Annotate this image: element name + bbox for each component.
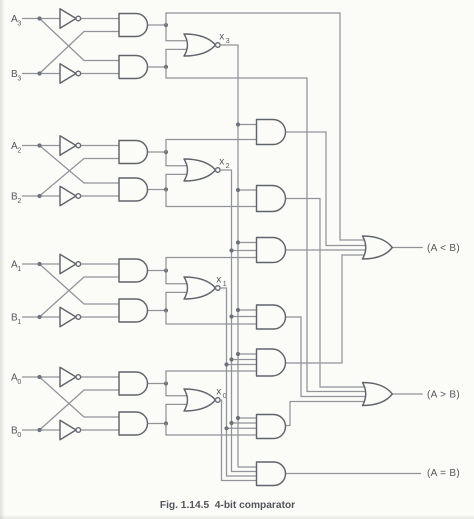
wire (A>B) OR output xyxy=(392,393,423,395)
wire junction to NOR top input (bit 3) xyxy=(166,25,190,41)
inverter B0 (NOT gate) xyxy=(60,420,76,439)
OR gate A greater than B xyxy=(363,383,393,406)
node B2 input wire xyxy=(22,195,60,197)
node A1 input wire xyxy=(22,263,60,265)
NOR gate x1 (equality) xyxy=(184,277,216,299)
wire x1 tap to AND x3x2x1A0'B0 xyxy=(227,364,259,366)
AND gate A2'·B2 (less-than term) xyxy=(119,141,148,164)
wire net x3x2A1B1' to (A>B) OR input 3 xyxy=(286,317,371,397)
inverter B3 (NOT gate) xyxy=(60,64,76,83)
svg-text:1: 1 xyxy=(17,266,21,273)
wire inverter A2 output to AND xyxy=(81,145,121,147)
svg-text:0: 0 xyxy=(17,432,21,439)
op AND gate x3x2x1A0B0' xyxy=(257,415,286,439)
node A3 input wire xyxy=(22,18,60,20)
node A0 junction dot xyxy=(37,375,41,379)
inverter A1 (NOT gate) xyxy=(60,254,76,273)
wire junction to NOR top input (bit 2) xyxy=(166,152,190,166)
wire inverter A0 output to AND xyxy=(81,376,121,378)
NOR gate x2 (equality) xyxy=(184,159,216,181)
wire net x3x2x1A0B0' to (A>B) OR input 4 xyxy=(286,402,371,426)
wire A2B2' term down to cascade AND xyxy=(166,190,259,207)
inverter A2 (NOT gate) xyxy=(60,136,76,155)
junction dot lower AND0 output xyxy=(164,421,168,425)
wire x2 tap to AND x3x2x1A0'B0 xyxy=(232,359,259,361)
AND gate A3'·B3 (less-than term) xyxy=(119,14,147,37)
AND gate A0'·B0 (less-than term) xyxy=(119,372,148,395)
wire net x2: NOR output down to equality AND xyxy=(220,170,258,472)
wire junction to NOR bottom input (bit 1) xyxy=(166,292,190,310)
wire lower AND3 output to junction xyxy=(148,66,167,68)
node B1 input wire xyxy=(22,316,60,318)
wire x3 tap to AND x3x2x1A0'B0 xyxy=(238,353,259,355)
inverter B1 (NOT gate) xyxy=(60,307,76,326)
inverter A3 (NOT gate) xyxy=(60,9,76,28)
svg-text:3: 3 xyxy=(17,20,21,27)
wire x3 tap to AND x3x2A1'B1 xyxy=(238,242,259,244)
wire x2 tap to AND x3x2A1'B1 xyxy=(232,250,259,252)
wire B2 cross diagonal to upper AND xyxy=(40,159,122,197)
AND gate equality x3x2x1x0 (A=B) xyxy=(257,462,286,486)
node A1 junction dot xyxy=(37,262,41,266)
junction dot lower AND1 output xyxy=(164,308,168,312)
node B0 junction dot xyxy=(37,428,41,432)
wire net x3A2'B2 to (A<B) OR input 2 xyxy=(286,132,371,246)
AND gate A0·B0' (greater-than term) xyxy=(119,412,148,435)
AND gate A2·B2' (greater-than term) xyxy=(119,178,148,201)
node B1 junction dot xyxy=(37,315,41,319)
wire upper AND2 output to junction xyxy=(148,151,167,153)
node A3 junction dot xyxy=(37,16,41,20)
wire junction to NOR bottom input (bit 3) xyxy=(166,49,190,67)
AND gate A1'·B1 (less-than term) xyxy=(119,259,148,282)
wire B0 cross diagonal to upper AND xyxy=(40,390,122,430)
wire x3 tap to AND x3x2x1A0B0' xyxy=(238,417,259,419)
wire net x1: NOR output down to equality AND xyxy=(220,288,258,476)
wire A1 cross diagonal to lower AND xyxy=(40,264,122,304)
wire B1 cross diagonal to upper AND xyxy=(40,277,122,317)
svg-text:2: 2 xyxy=(226,163,230,170)
node A2 input wire xyxy=(22,145,60,147)
wire B3 cross diagonal to upper AND xyxy=(40,32,122,74)
svg-text:2: 2 xyxy=(17,147,21,154)
node A2 junction dot xyxy=(37,143,41,147)
junction dot lower AND3 output xyxy=(164,65,168,69)
wire inverter A1 output to AND xyxy=(81,263,121,265)
wire inverter B1 output to AND xyxy=(81,316,121,318)
wire A3 cross diagonal to lower AND xyxy=(40,19,122,61)
wire lower AND1 output to junction xyxy=(148,310,167,312)
wire A1B1' term down to cascade AND xyxy=(166,311,259,325)
wire net x3A2B2' to (A>B) OR input 1 xyxy=(286,199,371,388)
wire junction to NOR top input (bit 0) xyxy=(166,384,190,396)
wire x2 tap to AND x3x2x1A0B0' xyxy=(232,422,259,424)
svg-text:x: x xyxy=(216,387,221,398)
inverter B2 (NOT gate) xyxy=(60,186,76,205)
svg-text:(A < B): (A < B) xyxy=(427,243,460,254)
op AND gate x3·A2B2' xyxy=(257,186,286,212)
op AND gate x3x2A1'B1 xyxy=(257,238,286,263)
svg-text:1: 1 xyxy=(17,319,21,326)
junction dot upper AND2 output xyxy=(164,150,168,154)
wire inverter B3 output to AND xyxy=(81,73,121,75)
node B0 input wire xyxy=(22,429,60,431)
svg-text:x: x xyxy=(216,275,221,286)
wire (A<B) OR output xyxy=(392,247,423,249)
wire net x3x2x1A0'B0 to (A<B) OR input 4 xyxy=(286,255,371,363)
wire upper AND3 output to junction xyxy=(148,24,167,26)
wire (A=B) AND output xyxy=(286,473,422,475)
wire lower AND2 output to junction xyxy=(148,189,167,191)
wire upper AND1 output to junction xyxy=(148,270,167,272)
svg-text:x: x xyxy=(219,157,224,168)
wire net x3x2A1'B1 to (A<B) OR input 3 xyxy=(286,249,371,251)
node B3 input wire xyxy=(22,73,60,75)
wire x1 tap to AND x3x2x1A0B0' xyxy=(227,427,259,429)
op AND gate x3x2A1B1' xyxy=(257,305,286,329)
wire upper AND0 output to junction xyxy=(148,383,167,385)
op AND gate x3·A2'B2 xyxy=(257,120,286,145)
svg-text:3: 3 xyxy=(17,75,21,82)
junction dot upper AND1 output xyxy=(164,268,168,272)
svg-text:0: 0 xyxy=(17,379,21,386)
node A0 input wire xyxy=(22,376,60,378)
svg-text:1: 1 xyxy=(223,281,227,288)
inverter A0 (NOT gate) xyxy=(60,367,76,386)
wire A0 cross diagonal to lower AND xyxy=(40,377,122,417)
wire A0'B0 term up to cascade AND xyxy=(166,371,259,384)
svg-text:(A = B): (A = B) xyxy=(427,468,460,479)
wire x2 tap to AND x3x2A1B1' xyxy=(232,316,259,318)
wire x3 tap to AND x3x2A1B1' xyxy=(238,309,259,311)
svg-text:3: 3 xyxy=(226,38,230,45)
svg-text:(A > B): (A > B) xyxy=(427,390,460,401)
wire net A3B3' to (A>B) OR input 2 xyxy=(166,67,370,392)
wire junction to NOR bottom input (bit 0) xyxy=(166,404,190,423)
wire inverter A3 output to AND xyxy=(81,18,121,20)
wire junction to NOR bottom input (bit 2) xyxy=(166,174,190,189)
wire A2 cross diagonal to lower AND xyxy=(40,146,122,184)
node B3 junction dot xyxy=(37,71,41,75)
caption Fig. 1.14.5 4-bit comparator xyxy=(0,500,455,511)
wire A2'B2 term up to cascade AND xyxy=(166,140,259,153)
svg-text:x: x xyxy=(219,32,224,43)
wire A0B0' term down to cascade AND xyxy=(166,424,259,436)
NOR gate x3 (equality) xyxy=(184,34,216,56)
wire x3 tap to AND x3·A2'B2 xyxy=(238,124,259,126)
wire junction to NOR top input (bit 1) xyxy=(166,271,190,284)
OR gate A less than B xyxy=(363,236,393,259)
wire net A3'B3 to (A<B) OR input 1 xyxy=(166,13,370,240)
junction dot upper AND3 output xyxy=(164,23,168,27)
wire lower AND0 output to junction xyxy=(148,423,167,425)
junction dot upper AND0 output xyxy=(164,381,168,385)
svg-text:2: 2 xyxy=(17,198,21,205)
node B2 junction dot xyxy=(37,194,41,198)
wire x3 tap to AND x3·A2B2' xyxy=(238,189,259,191)
AND gate A1·B1' (greater-than term) xyxy=(119,299,148,322)
wire net x0: NOR output down to equality AND xyxy=(220,400,258,481)
wire net x3: NOR output down to equality AND xyxy=(220,45,258,467)
NOR gate x0 (equality) xyxy=(184,389,216,411)
op AND gate x3x2x1A0'B0 xyxy=(257,349,286,376)
wire inverter B2 output to AND xyxy=(81,195,121,197)
wire A1'B1 term up to cascade AND xyxy=(166,258,259,271)
wire inverter B0 output to AND xyxy=(81,429,121,431)
junction dot lower AND2 output xyxy=(164,187,168,191)
AND gate A3·B3' (greater-than term) xyxy=(119,56,148,79)
